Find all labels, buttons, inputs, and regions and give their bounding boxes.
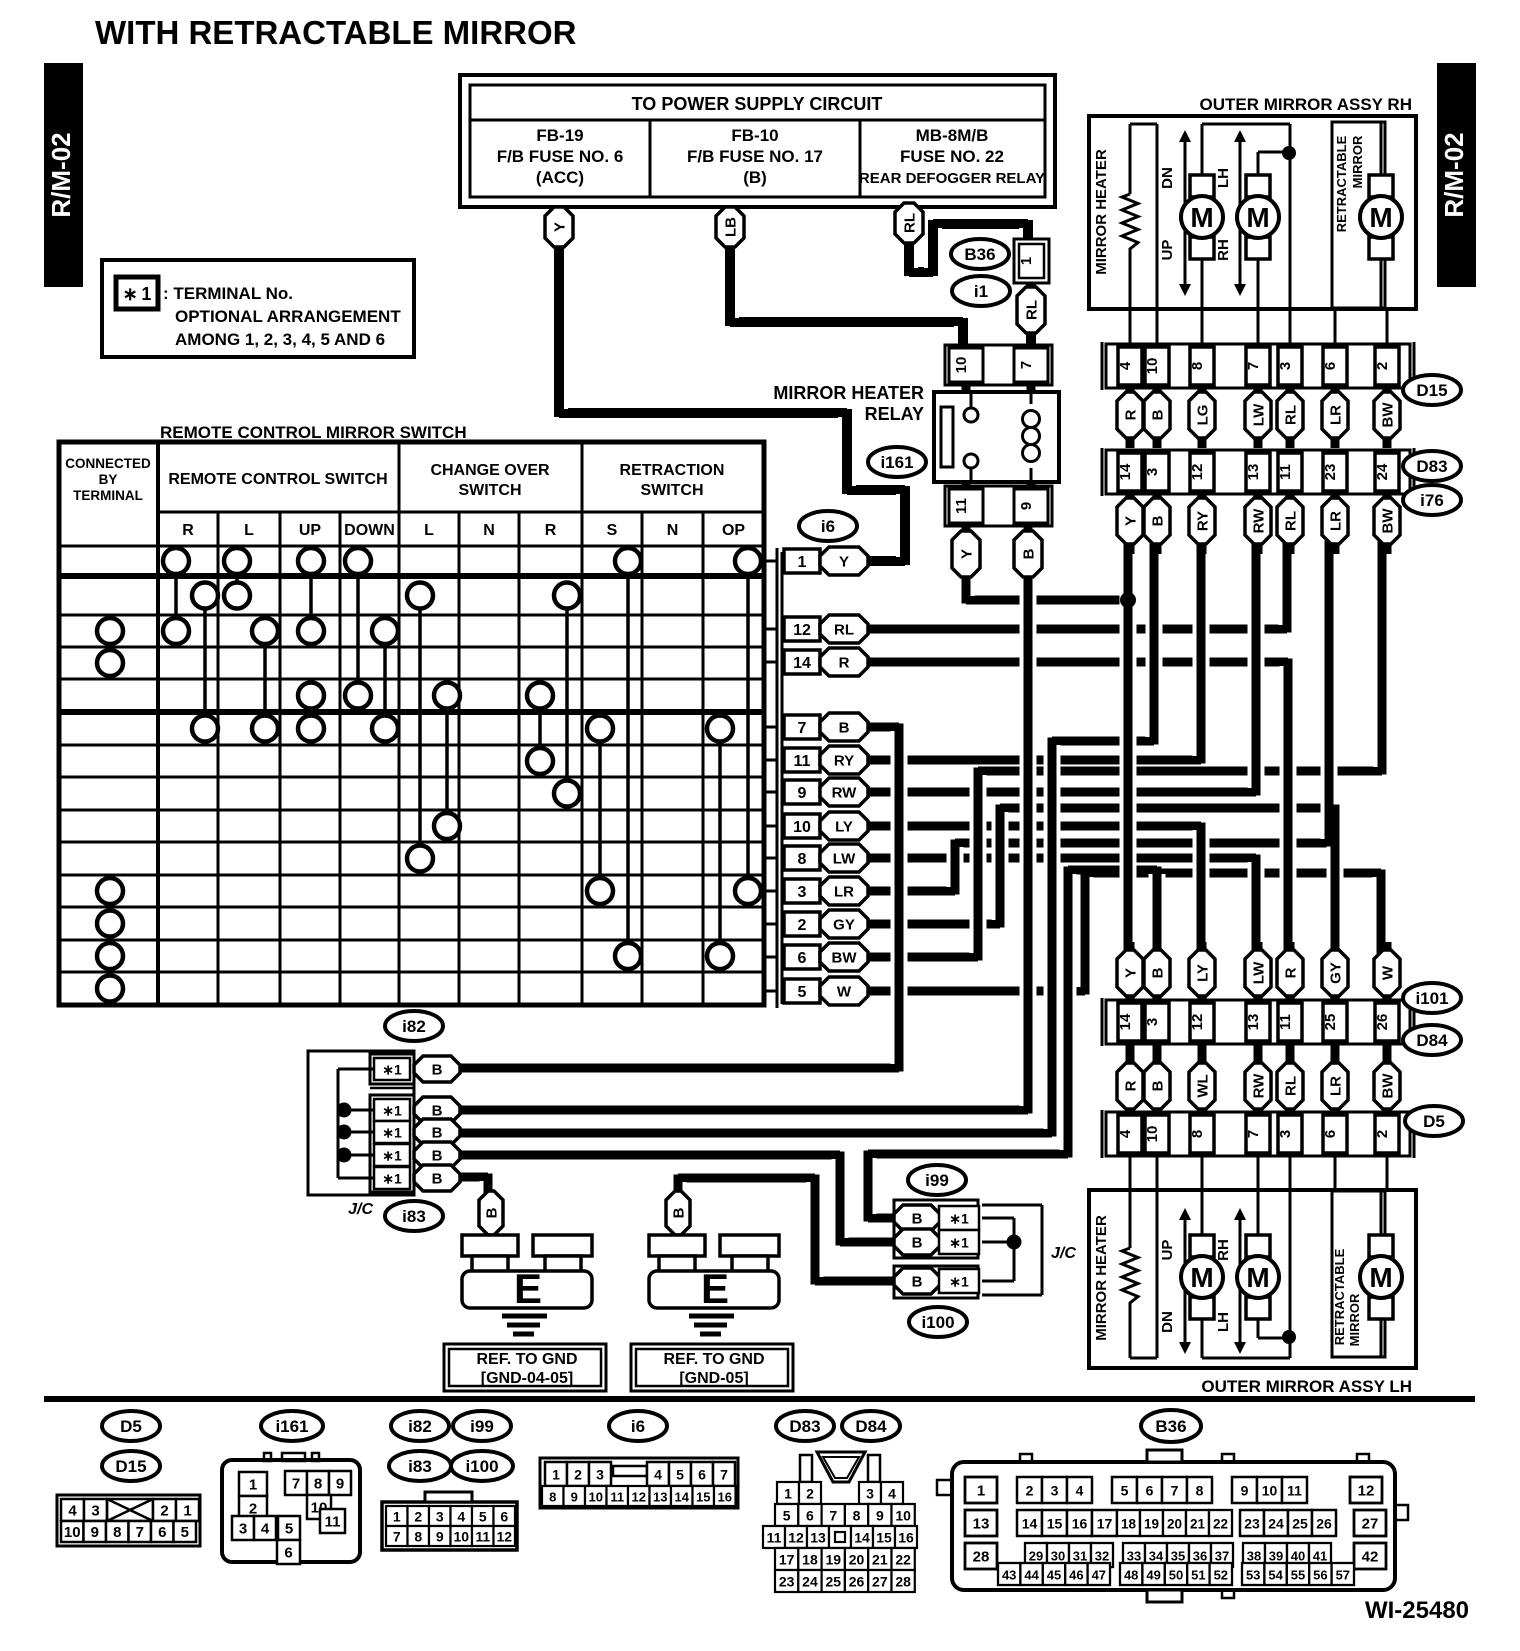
svg-text:11: 11 <box>1287 1483 1302 1499</box>
svg-text:D5: D5 <box>1423 1112 1445 1131</box>
svg-text:LY: LY <box>835 819 853 836</box>
svg-text:B: B <box>432 1062 443 1079</box>
svg-text:14: 14 <box>1117 1013 1134 1030</box>
svg-text:5: 5 <box>676 1467 684 1483</box>
svg-text:9: 9 <box>91 1524 99 1541</box>
svg-text:2: 2 <box>574 1467 582 1483</box>
svg-text:Y: Y <box>959 549 976 559</box>
svg-text:28: 28 <box>895 1574 911 1590</box>
svg-text:[GND-04-05]: [GND-04-05] <box>481 1370 573 1387</box>
svg-text:13: 13 <box>973 1516 990 1533</box>
svg-text:14: 14 <box>675 1490 690 1505</box>
svg-text:6: 6 <box>158 1524 166 1541</box>
svg-text:OP: OP <box>722 522 745 539</box>
svg-text:1: 1 <box>249 1477 257 1494</box>
svg-text:14: 14 <box>793 655 811 672</box>
svg-text:D5: D5 <box>120 1417 142 1436</box>
svg-text:46: 46 <box>1069 1568 1083 1583</box>
svg-text:B: B <box>1150 515 1167 526</box>
svg-text:F/B FUSE NO. 6: F/B FUSE NO. 6 <box>497 147 624 166</box>
svg-text:LW: LW <box>1251 961 1268 984</box>
svg-text:BW: BW <box>1380 402 1397 428</box>
svg-text:42: 42 <box>1362 1549 1379 1566</box>
svg-text:2: 2 <box>1026 1483 1034 1499</box>
svg-text:BY: BY <box>99 472 118 487</box>
svg-text:13: 13 <box>1245 1014 1262 1031</box>
svg-text:(ACC): (ACC) <box>536 168 584 187</box>
svg-text:10: 10 <box>1144 358 1161 375</box>
svg-text:16: 16 <box>1072 1516 1088 1532</box>
svg-text:6: 6 <box>798 950 807 967</box>
svg-text:7: 7 <box>393 1529 401 1545</box>
svg-text:B: B <box>432 1125 443 1142</box>
svg-text:LR: LR <box>834 884 854 901</box>
svg-text:15: 15 <box>696 1490 710 1505</box>
svg-text:22: 22 <box>895 1552 911 1568</box>
svg-text:12: 12 <box>496 1529 512 1545</box>
svg-text:6: 6 <box>1322 362 1339 370</box>
svg-text:LR: LR <box>1328 511 1345 531</box>
svg-text:9: 9 <box>1018 502 1035 510</box>
svg-text:LG: LG <box>1195 405 1212 426</box>
svg-text:3: 3 <box>1144 468 1161 476</box>
svg-text:FB-19: FB-19 <box>536 126 583 145</box>
svg-text:1: 1 <box>977 1483 985 1500</box>
svg-text:BW: BW <box>1380 508 1397 534</box>
svg-text:RELAY: RELAY <box>865 404 924 424</box>
svg-text:3: 3 <box>1144 1018 1161 1026</box>
svg-text:4: 4 <box>1117 1129 1134 1138</box>
svg-text:WL: WL <box>1195 1074 1212 1097</box>
svg-text:i76: i76 <box>1420 491 1444 510</box>
svg-text:20: 20 <box>1167 1517 1182 1532</box>
svg-text:SWITCH: SWITCH <box>640 482 703 499</box>
svg-text:10: 10 <box>453 1529 469 1545</box>
svg-text:4: 4 <box>1117 361 1134 370</box>
svg-text:8: 8 <box>1196 1483 1204 1499</box>
svg-text:41: 41 <box>1313 1549 1327 1564</box>
svg-text:LY: LY <box>1195 964 1212 982</box>
svg-text:3: 3 <box>91 1503 99 1520</box>
svg-text:REF. TO GND: REF. TO GND <box>663 1351 764 1368</box>
svg-text:B: B <box>484 1207 501 1218</box>
svg-text:L: L <box>244 522 254 539</box>
svg-text:18: 18 <box>1121 1517 1137 1532</box>
svg-text:BW: BW <box>832 950 858 967</box>
svg-text:30: 30 <box>1051 1549 1065 1564</box>
svg-text:AMONG 1, 2, 3, 4, 5 AND 6: AMONG 1, 2, 3, 4, 5 AND 6 <box>175 330 385 349</box>
svg-text:27: 27 <box>872 1574 888 1590</box>
svg-text:11: 11 <box>953 498 970 514</box>
svg-text:26: 26 <box>1316 1516 1332 1532</box>
svg-text:23: 23 <box>1322 464 1339 481</box>
svg-text:26: 26 <box>1374 1014 1391 1031</box>
svg-text:15: 15 <box>1047 1516 1063 1532</box>
svg-text:3: 3 <box>1051 1483 1059 1499</box>
svg-text:MIRROR: MIRROR <box>1350 135 1365 188</box>
svg-text:GY: GY <box>1328 962 1345 984</box>
svg-text:4: 4 <box>654 1467 662 1483</box>
svg-text:5: 5 <box>1121 1483 1129 1499</box>
svg-text:D15: D15 <box>1416 381 1447 400</box>
svg-text:MIRROR HEATER: MIRROR HEATER <box>1093 1215 1110 1341</box>
svg-text:51: 51 <box>1191 1568 1205 1583</box>
svg-text:7: 7 <box>1018 361 1035 369</box>
svg-text:1: 1 <box>393 1509 401 1525</box>
svg-text:6: 6 <box>698 1467 706 1483</box>
svg-text:12: 12 <box>1358 1483 1375 1500</box>
svg-text:19: 19 <box>825 1552 841 1568</box>
svg-text:4: 4 <box>68 1503 77 1520</box>
svg-text:8: 8 <box>853 1508 861 1524</box>
svg-text:2: 2 <box>414 1509 422 1525</box>
svg-text:FB-10: FB-10 <box>731 126 778 145</box>
svg-text:B: B <box>432 1103 443 1120</box>
svg-text:i82: i82 <box>402 1017 426 1036</box>
svg-text:B: B <box>432 1171 443 1188</box>
svg-text:W: W <box>837 984 852 1001</box>
svg-text:i83: i83 <box>408 1457 432 1476</box>
svg-text:E: E <box>514 1265 542 1312</box>
svg-text:52: 52 <box>1214 1568 1228 1583</box>
svg-text:RH: RH <box>1215 239 1232 261</box>
svg-text:D83: D83 <box>1416 457 1447 476</box>
svg-text:13: 13 <box>653 1490 667 1505</box>
svg-text:B: B <box>912 1235 923 1252</box>
svg-text:TO POWER SUPPLY CIRCUIT: TO POWER SUPPLY CIRCUIT <box>632 94 883 114</box>
svg-text:2: 2 <box>1374 1130 1391 1138</box>
svg-text:6: 6 <box>1322 1130 1339 1138</box>
svg-text:8: 8 <box>314 1476 322 1493</box>
svg-text:47: 47 <box>1092 1568 1106 1583</box>
svg-text:7: 7 <box>720 1467 728 1483</box>
svg-text:33: 33 <box>1127 1549 1141 1564</box>
svg-text:OUTER MIRROR ASSY RH: OUTER MIRROR ASSY RH <box>1199 95 1412 114</box>
svg-text:MB-8M/B: MB-8M/B <box>916 126 989 145</box>
svg-text:i99: i99 <box>470 1417 494 1436</box>
svg-text:13: 13 <box>1245 464 1262 481</box>
svg-text:3: 3 <box>1277 362 1294 370</box>
svg-text:LW: LW <box>833 851 856 868</box>
svg-text:S: S <box>607 522 618 539</box>
svg-text:11: 11 <box>767 1530 782 1546</box>
svg-text:7: 7 <box>1245 362 1262 370</box>
svg-text:LW: LW <box>1251 403 1268 426</box>
svg-text:15: 15 <box>876 1530 892 1546</box>
svg-text:13: 13 <box>810 1530 826 1546</box>
svg-text:R: R <box>182 522 194 539</box>
svg-text:14: 14 <box>854 1530 870 1546</box>
svg-text:9: 9 <box>798 785 807 802</box>
svg-text:1: 1 <box>784 1486 792 1502</box>
svg-text:2: 2 <box>806 1486 814 1502</box>
svg-text:LH: LH <box>1215 1312 1232 1332</box>
svg-text:5: 5 <box>181 1524 189 1541</box>
svg-text:: TERMINAL No.: : TERMINAL No. <box>163 284 293 303</box>
svg-text:i101: i101 <box>1415 989 1448 1008</box>
svg-text:11: 11 <box>610 1490 624 1505</box>
svg-text:BW: BW <box>1380 1073 1397 1099</box>
svg-text:RETRACTABLE: RETRACTABLE <box>1332 1248 1347 1345</box>
svg-text:6: 6 <box>500 1509 508 1525</box>
svg-text:9: 9 <box>571 1490 578 1505</box>
svg-text:UP: UP <box>1159 1240 1176 1261</box>
svg-text:B: B <box>839 720 850 737</box>
svg-text:∗1: ∗1 <box>382 1062 402 1078</box>
svg-text:1: 1 <box>1018 257 1035 265</box>
svg-text:RH: RH <box>1215 1239 1232 1261</box>
svg-text:RL: RL <box>1283 1076 1300 1096</box>
svg-text:17: 17 <box>1097 1516 1113 1532</box>
svg-text:55: 55 <box>1291 1568 1305 1583</box>
svg-text:26: 26 <box>849 1574 865 1590</box>
svg-text:11: 11 <box>325 1514 341 1531</box>
svg-text:M: M <box>1369 1262 1392 1293</box>
svg-text:∗1: ∗1 <box>949 1211 969 1227</box>
svg-text:MIRROR HEATER: MIRROR HEATER <box>773 383 924 403</box>
svg-text:32: 32 <box>1095 1549 1109 1564</box>
svg-text:4: 4 <box>888 1486 896 1502</box>
svg-text:17: 17 <box>779 1552 795 1568</box>
svg-text:7: 7 <box>829 1508 837 1524</box>
svg-text:RL: RL <box>834 622 854 639</box>
svg-text:LB: LB <box>723 217 740 237</box>
svg-text:B: B <box>912 1274 923 1291</box>
svg-text:44: 44 <box>1024 1568 1039 1583</box>
svg-text:10: 10 <box>589 1490 603 1505</box>
svg-text:1: 1 <box>798 554 807 571</box>
svg-text:i100: i100 <box>921 1313 954 1332</box>
svg-text:9: 9 <box>436 1529 444 1545</box>
svg-text:B36: B36 <box>964 245 995 264</box>
svg-text:27: 27 <box>1362 1516 1379 1533</box>
svg-text:6: 6 <box>806 1508 814 1524</box>
svg-text:Y: Y <box>1123 516 1140 526</box>
svg-text:i99: i99 <box>925 1171 949 1190</box>
svg-text:10: 10 <box>1144 1126 1161 1143</box>
svg-text:25: 25 <box>1292 1516 1308 1532</box>
svg-text:RY: RY <box>1195 511 1212 531</box>
svg-text:16: 16 <box>898 1530 914 1546</box>
svg-text:B: B <box>1150 1080 1167 1091</box>
svg-text:∗1: ∗1 <box>382 1171 402 1187</box>
svg-text:12: 12 <box>1189 464 1206 481</box>
svg-text:B: B <box>1021 548 1038 559</box>
svg-text:D83: D83 <box>789 1417 820 1436</box>
svg-text:RL: RL <box>1283 511 1300 531</box>
svg-text:FUSE NO. 22: FUSE NO. 22 <box>900 147 1004 166</box>
svg-text:MIRROR: MIRROR <box>1347 1293 1362 1346</box>
svg-text:56: 56 <box>1313 1568 1327 1583</box>
svg-text:∗ 1: ∗ 1 <box>123 284 152 304</box>
svg-text:RETRACTABLE: RETRACTABLE <box>1334 135 1349 232</box>
svg-text:LR: LR <box>1328 1076 1345 1096</box>
svg-text:6: 6 <box>1146 1483 1154 1499</box>
svg-text:53: 53 <box>1246 1568 1260 1583</box>
svg-text:7: 7 <box>136 1524 144 1541</box>
svg-text:B: B <box>671 1207 688 1218</box>
svg-text:R/M-02: R/M-02 <box>46 132 76 217</box>
svg-text:14: 14 <box>1117 463 1134 480</box>
svg-text:57: 57 <box>1336 1568 1350 1583</box>
svg-text:11: 11 <box>1277 1014 1294 1030</box>
svg-text:11: 11 <box>794 753 811 770</box>
svg-text:10: 10 <box>895 1508 911 1524</box>
svg-text:F/B FUSE NO. 17: F/B FUSE NO. 17 <box>687 147 823 166</box>
svg-text:RY: RY <box>834 753 854 770</box>
svg-text:N: N <box>667 522 679 539</box>
svg-text:i1: i1 <box>974 282 988 301</box>
svg-text:22: 22 <box>1213 1517 1228 1532</box>
svg-text:10: 10 <box>64 1524 81 1541</box>
svg-text:6: 6 <box>284 1545 292 1562</box>
svg-text:20: 20 <box>849 1552 865 1568</box>
svg-text:∗1: ∗1 <box>949 1274 969 1290</box>
svg-text:RW: RW <box>1251 508 1268 534</box>
svg-text:∗1: ∗1 <box>382 1125 402 1141</box>
svg-text:RL: RL <box>902 213 919 233</box>
svg-text:RETRACTION: RETRACTION <box>620 462 725 479</box>
svg-text:Y: Y <box>552 222 569 232</box>
svg-text:R: R <box>1283 967 1300 978</box>
svg-text:12: 12 <box>788 1530 804 1546</box>
svg-text:B: B <box>1150 409 1167 420</box>
svg-text:50: 50 <box>1169 1568 1183 1583</box>
svg-text:i161: i161 <box>880 453 913 472</box>
svg-text:OUTER MIRROR ASSY LH: OUTER MIRROR ASSY LH <box>1201 1377 1412 1396</box>
svg-text:M: M <box>1369 202 1392 233</box>
svg-text:N: N <box>483 522 495 539</box>
svg-text:∗1: ∗1 <box>949 1235 969 1251</box>
svg-text:36: 36 <box>1193 1549 1207 1564</box>
svg-text:5: 5 <box>783 1508 791 1524</box>
svg-text:D84: D84 <box>855 1417 887 1436</box>
svg-text:REF. TO GND: REF. TO GND <box>476 1351 577 1368</box>
svg-text:23: 23 <box>1244 1516 1260 1532</box>
svg-text:D15: D15 <box>115 1457 146 1476</box>
svg-text:i161: i161 <box>275 1417 308 1436</box>
svg-text:RW: RW <box>832 785 858 802</box>
svg-text:24: 24 <box>1374 463 1391 480</box>
svg-text:19: 19 <box>1144 1517 1159 1532</box>
svg-text:B: B <box>1150 967 1167 978</box>
svg-text:J/C: J/C <box>1051 1245 1076 1262</box>
svg-text:Y: Y <box>839 554 849 571</box>
svg-text:7: 7 <box>1171 1483 1179 1499</box>
svg-text:i100: i100 <box>465 1457 498 1476</box>
svg-text:RW: RW <box>1251 1073 1268 1099</box>
svg-text:∗1: ∗1 <box>382 1148 402 1164</box>
svg-text:4: 4 <box>457 1509 465 1525</box>
svg-text:3: 3 <box>596 1467 604 1483</box>
svg-text:R: R <box>1123 409 1140 420</box>
svg-text:3: 3 <box>436 1509 444 1525</box>
svg-text:23: 23 <box>779 1574 795 1590</box>
svg-text:12: 12 <box>1189 1014 1206 1031</box>
svg-text:LH: LH <box>1215 168 1232 188</box>
svg-text:5: 5 <box>479 1509 487 1525</box>
svg-text:(B): (B) <box>743 168 767 187</box>
svg-text:REMOTE CONTROL MIRROR SWITCH: REMOTE CONTROL MIRROR SWITCH <box>160 423 467 442</box>
svg-text:SWITCH: SWITCH <box>458 482 521 499</box>
svg-text:1: 1 <box>552 1467 560 1483</box>
svg-text:3: 3 <box>798 884 807 901</box>
svg-text:i6: i6 <box>631 1417 645 1436</box>
svg-text:2: 2 <box>160 1503 168 1520</box>
svg-text:37: 37 <box>1215 1549 1229 1564</box>
svg-text:R/M-02: R/M-02 <box>1439 132 1469 217</box>
svg-text:24: 24 <box>802 1574 818 1590</box>
svg-text:DOWN: DOWN <box>344 522 395 539</box>
svg-text:54: 54 <box>1268 1568 1283 1583</box>
svg-text:i82: i82 <box>408 1417 432 1436</box>
svg-text:UP: UP <box>299 522 322 539</box>
svg-text:DN: DN <box>1159 1311 1176 1333</box>
svg-text:2: 2 <box>798 917 807 934</box>
svg-text:M: M <box>1246 202 1269 233</box>
svg-text:R: R <box>1123 1080 1140 1091</box>
svg-text:3: 3 <box>239 1521 247 1538</box>
svg-text:12: 12 <box>793 622 811 639</box>
svg-text:25: 25 <box>1322 1014 1339 1031</box>
svg-text:4: 4 <box>1076 1483 1084 1499</box>
svg-text:45: 45 <box>1047 1568 1061 1583</box>
svg-text:12: 12 <box>632 1490 646 1505</box>
svg-text:18: 18 <box>802 1552 818 1568</box>
svg-text:∗1: ∗1 <box>382 1103 402 1119</box>
svg-text:16: 16 <box>718 1490 732 1505</box>
svg-text:GY: GY <box>833 917 855 934</box>
svg-text:38: 38 <box>1247 1549 1261 1564</box>
svg-text:i83: i83 <box>402 1207 426 1226</box>
svg-text:UP: UP <box>1159 240 1176 261</box>
svg-text:OPTIONAL ARRANGEMENT: OPTIONAL ARRANGEMENT <box>175 307 401 326</box>
svg-text:R: R <box>839 655 850 672</box>
svg-text:LR: LR <box>1328 405 1345 425</box>
svg-text:3: 3 <box>1277 1130 1294 1138</box>
svg-text:MIRROR HEATER: MIRROR HEATER <box>1093 149 1110 275</box>
svg-text:8: 8 <box>549 1490 556 1505</box>
svg-text:39: 39 <box>1269 1549 1283 1564</box>
svg-text:2: 2 <box>1374 362 1391 370</box>
svg-text:8: 8 <box>113 1524 121 1541</box>
svg-text:43: 43 <box>1002 1568 1016 1583</box>
svg-text:9: 9 <box>1241 1483 1249 1499</box>
svg-text:RL: RL <box>1024 300 1041 320</box>
svg-text:DN: DN <box>1159 167 1176 189</box>
svg-text:M: M <box>1190 202 1213 233</box>
svg-text:Y: Y <box>1123 968 1140 978</box>
svg-text:10: 10 <box>953 357 970 374</box>
svg-text:L: L <box>424 522 434 539</box>
svg-text:8: 8 <box>1189 1130 1206 1138</box>
svg-text:28: 28 <box>973 1549 990 1566</box>
svg-text:40: 40 <box>1291 1549 1305 1564</box>
svg-text:1: 1 <box>183 1503 191 1520</box>
svg-text:7: 7 <box>1245 1130 1262 1138</box>
svg-text:8: 8 <box>798 851 807 868</box>
svg-text:D84: D84 <box>1416 1031 1448 1050</box>
svg-text:B: B <box>432 1148 443 1165</box>
svg-text:WI-25480: WI-25480 <box>1365 1597 1469 1624</box>
svg-text:7: 7 <box>292 1476 300 1493</box>
svg-text:29: 29 <box>1029 1549 1043 1564</box>
svg-text:B: B <box>912 1211 923 1228</box>
svg-text:24: 24 <box>1268 1516 1284 1532</box>
svg-text:RL: RL <box>1283 405 1300 425</box>
svg-text:E: E <box>701 1265 729 1312</box>
svg-text:M: M <box>1190 1262 1213 1293</box>
